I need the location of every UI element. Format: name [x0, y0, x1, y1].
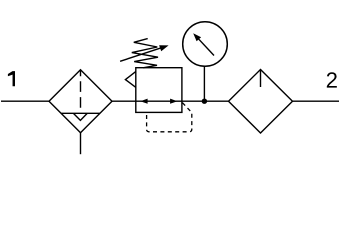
wire W1: port 1 to filter inlet — [1, 100, 49, 102]
regulator R1 body (square) — [136, 68, 182, 113]
port 1 label — [8, 71, 15, 86]
junction node (dot) — [202, 99, 207, 104]
gauge stem wire — [203, 66, 205, 101]
lubricator L1 drip line — [260, 70, 262, 88]
wire W2: filter outlet to regulator inlet — [112, 100, 136, 102]
regulator R1 vent triangle — [125, 71, 135, 87]
wire W3: regulator outlet to lubricator inlet — [182, 100, 229, 102]
lubricator L1 body (diamond) — [229, 70, 293, 134]
regulator R1 flow path with arrowheads — [136, 99, 182, 104]
filter F1 condensate drain line — [80, 133, 82, 155]
filter F1 water separator baffle — [61, 113, 99, 120]
regulator R1 adjustment arrow — [120, 45, 169, 61]
regulator R1 adjustment spring — [132, 39, 158, 68]
regulator R1 pilot line (dashed feedback) — [147, 103, 192, 132]
port 2 label — [327, 72, 337, 87]
pressure gauge G1 — [183, 22, 228, 67]
filter F1 body (diamond) — [49, 70, 112, 133]
filter F1 element (dashed center line) — [80, 70, 82, 108]
wire W4: lubricator outlet to port 2 — [293, 100, 340, 102]
